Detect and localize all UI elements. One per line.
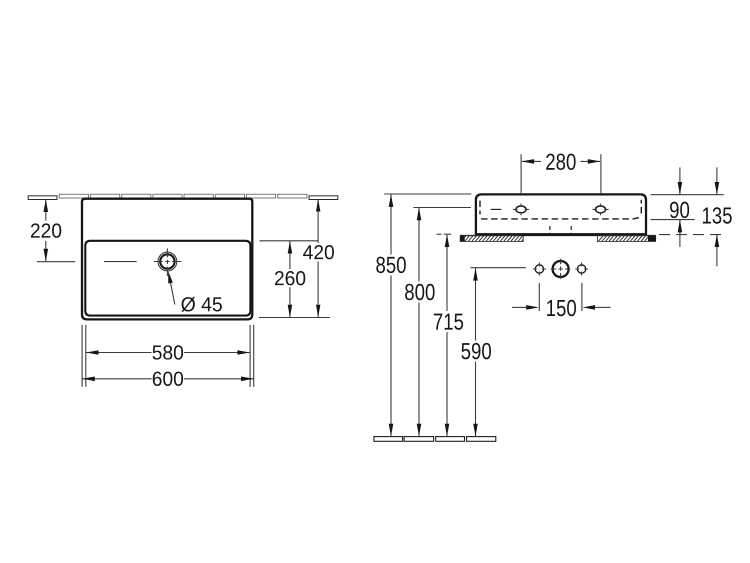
dimension 580 bbox=[86, 352, 250, 354]
faucet hole circle bbox=[158, 252, 177, 271]
label 715 bbox=[434, 314, 463, 330]
dimension 590 bbox=[470, 268, 526, 436]
label 420 bbox=[303, 245, 334, 259]
dimension 90 bbox=[679, 167, 681, 247]
dimension 850 bbox=[384, 194, 471, 436]
dimension 420 bbox=[317, 199, 319, 317]
leader arrowhead bbox=[168, 271, 173, 284]
label 280 bbox=[546, 154, 575, 170]
basin outer outline (plan view) bbox=[82, 199, 252, 320]
label 590 bbox=[461, 343, 491, 359]
dimension 135 bbox=[659, 234, 724, 236]
drain hole small right bbox=[577, 265, 585, 273]
hidden bowl profile (dashed) bbox=[480, 200, 641, 219]
faucet crosshair bbox=[154, 248, 182, 276]
fixing hole left (side view) bbox=[516, 206, 526, 213]
dimension 220 bbox=[37, 200, 75, 262]
right mounting bracket (hatched) bbox=[597, 236, 655, 242]
wall mounting line bbox=[460, 235, 655, 237]
label 260 bbox=[275, 271, 305, 285]
fixing hole right (side view) bbox=[595, 206, 605, 213]
label Ø 45 bbox=[181, 297, 222, 312]
label 800 bbox=[405, 284, 435, 300]
dimension 280 bbox=[521, 154, 601, 194]
dimension 715 bbox=[437, 234, 452, 436]
label 220 bbox=[31, 223, 61, 237]
centerline tick left of hole bbox=[491, 208, 502, 210]
floor hatch band bbox=[374, 437, 496, 442]
wall hatch band (plan view) bbox=[28, 194, 338, 199]
left mounting bracket (hatched) bbox=[460, 236, 523, 242]
label 850 bbox=[376, 257, 406, 273]
label 580 bbox=[153, 345, 184, 359]
dimension 260 bbox=[259, 241, 330, 318]
label 150 bbox=[547, 300, 576, 316]
dimension 150 bbox=[512, 283, 611, 311]
dimension 800 bbox=[413, 208, 471, 437]
basin side outline bbox=[476, 194, 646, 234]
right side extension lines bbox=[651, 195, 724, 220]
label 135 bbox=[703, 207, 732, 223]
basin inner rim (plan view) bbox=[85, 241, 250, 316]
label 600 bbox=[153, 372, 183, 386]
centerline dash inside basin bbox=[104, 261, 137, 263]
extension lines below basin (plan) bbox=[82, 325, 254, 387]
drain hidden stubs (dashed) bbox=[550, 226, 571, 233]
drain hole big center bbox=[553, 261, 569, 277]
drain hole small left bbox=[535, 265, 543, 273]
leader line to Ø 45 bbox=[170, 279, 175, 305]
dimension 600 bbox=[82, 378, 254, 380]
label 90 bbox=[670, 202, 689, 218]
